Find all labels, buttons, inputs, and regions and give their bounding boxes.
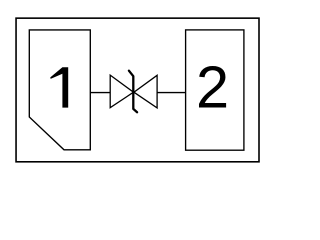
TVS diode right triangle — [134, 75, 157, 108]
enclosure outline — [16, 18, 259, 162]
svg-text:2: 2 — [196, 54, 229, 121]
wire — [157, 92, 186, 94]
wire — [90, 92, 110, 94]
TVS diode left triangle — [110, 75, 133, 108]
label 1 — [50, 67, 68, 107]
terminal block 1 — [29, 30, 90, 150]
TVS diode zener bar — [129, 71, 137, 113]
terminal block 2 — [186, 30, 244, 150]
